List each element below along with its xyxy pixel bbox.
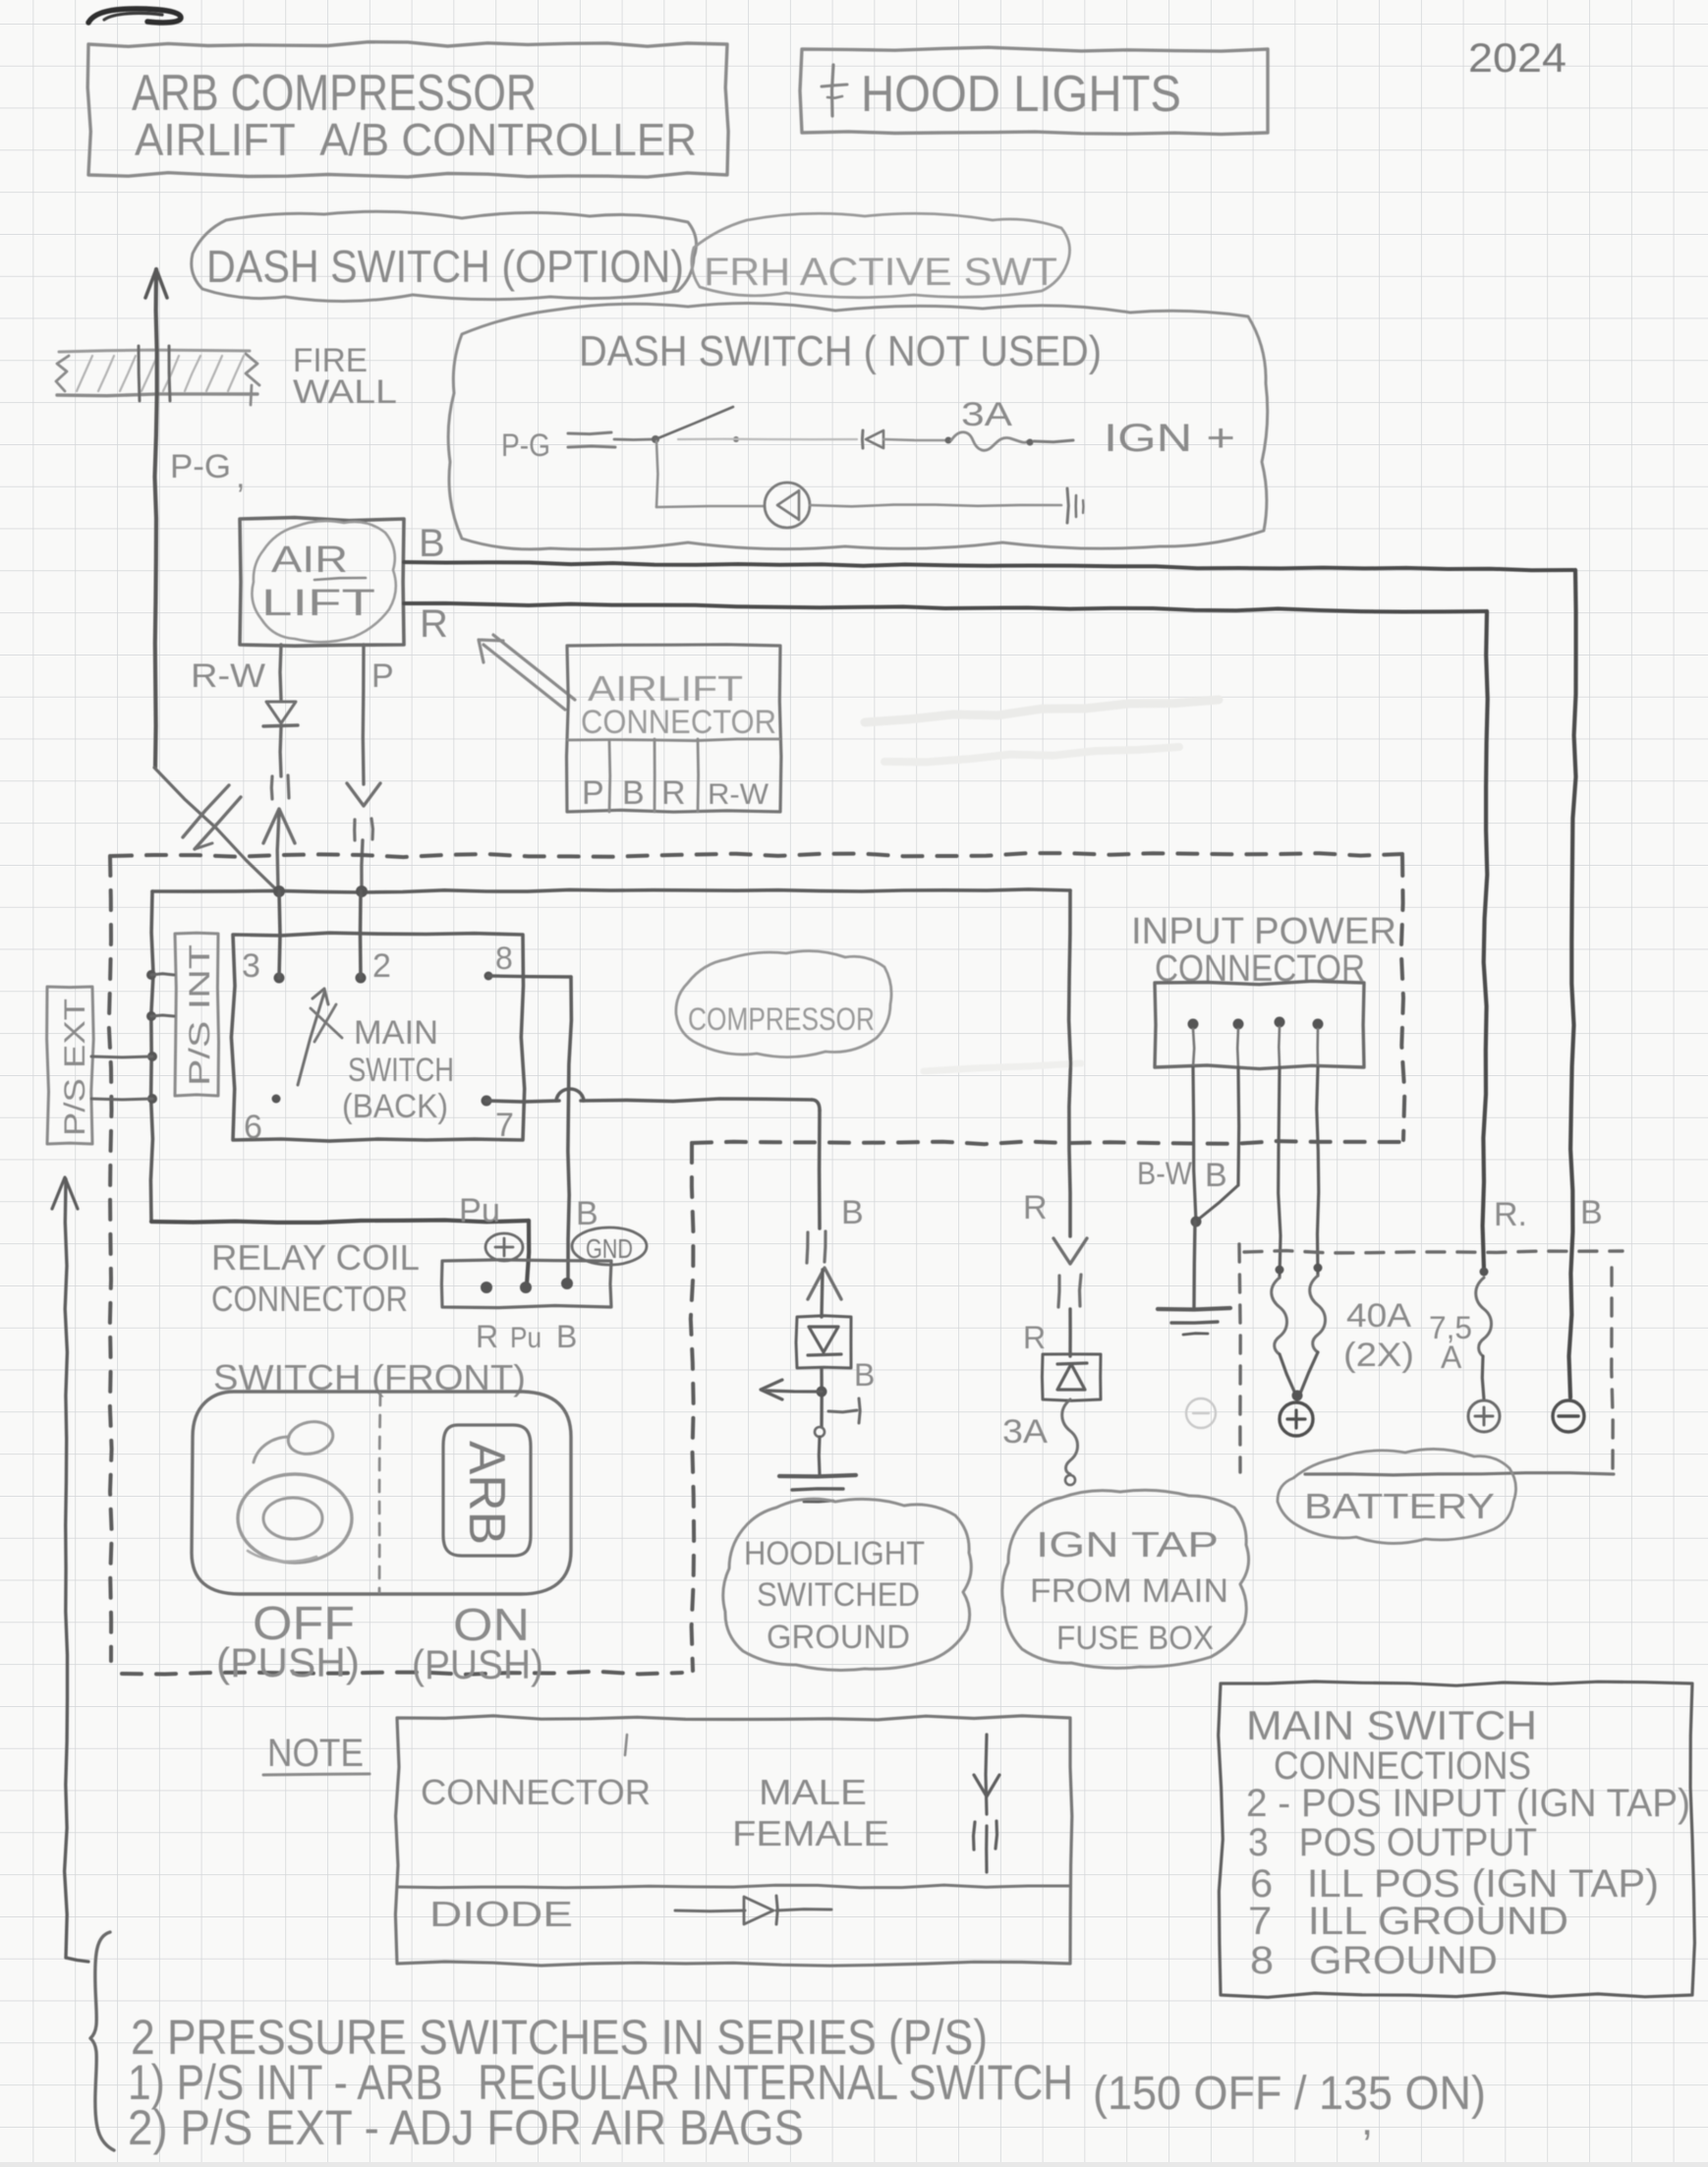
rail taps to P/S INT: [146, 970, 156, 980]
svg-text:AIRLIFT: AIRLIFT: [588, 668, 743, 709]
connector arrow B branch (up): [808, 1268, 841, 1299]
connector ticks P: [353, 820, 356, 840]
diode D1 (down): [266, 702, 296, 723]
title box ARB COMPRESSOR / AIRLIFT A/B CONTROLLER: [87, 42, 728, 177]
relay coil wire Pu horizontal: [151, 1221, 529, 1223]
arrow pointing to air lift (double): [484, 645, 565, 710]
svg-text:MAIN: MAIN: [354, 1014, 438, 1052]
firewall right break: [246, 354, 259, 405]
svg-text:P-G: P-G: [170, 448, 231, 485]
svg-text:2024: 2024: [1468, 34, 1566, 81]
component switch front rounded box: [192, 1392, 571, 1594]
lamp branch wire: [656, 441, 657, 507]
relay terminal + circle: [485, 1233, 523, 1261]
relay coil wire Pu drop: [527, 1221, 529, 1284]
svg-text:P: P: [371, 657, 394, 695]
fuse 40A #1 squiggle: [1272, 1278, 1287, 1354]
wire lamp to ground: [810, 505, 1061, 507]
firewall hatched band: [59, 350, 250, 352]
svg-text:2 - POS INPUT (IGN TAP): 2 - POS INPUT (IGN TAP): [1246, 1782, 1690, 1825]
label cloud DASH SWITCH (OPTION): [192, 211, 697, 301]
svg-text:IGN TAP: IGN TAP: [1036, 1524, 1219, 1565]
faint minus circle: [1186, 1398, 1216, 1428]
svg-text:P/S EXT: P/S EXT: [59, 998, 91, 1136]
svg-text:(150 OFF / 135 ON): (150 OFF / 135 ON): [1093, 2068, 1486, 2120]
connector arrow R-W (up): [263, 809, 295, 843]
input power pin 3 dot: [1275, 1017, 1285, 1028]
svg-text:40A: 40A: [1346, 1297, 1411, 1335]
svg-text:FRH ACTIVE SWT: FRH ACTIVE SWT: [704, 251, 1057, 294]
svg-text:R-W: R-W: [708, 778, 769, 811]
svg-text:DASH SWITCH ( NOT USED): DASH SWITCH ( NOT USED): [579, 327, 1102, 375]
svg-text:(BACK): (BACK): [342, 1088, 448, 1125]
connector ticks R-W: [270, 776, 274, 799]
wire dotted to diode: [678, 438, 857, 441]
svg-text:B: B: [1205, 1157, 1227, 1194]
lamp LP1 circle-K: [765, 483, 810, 528]
svg-text:,: ,: [236, 458, 245, 495]
fuse 40A #2 squiggle: [1310, 1276, 1326, 1352]
crossover hash marks on P-G diagonal: [183, 785, 229, 837]
pin 8 dot: [484, 972, 493, 981]
svg-text:3A: 3A: [1002, 1413, 1048, 1451]
component AIR LIFT box: [240, 518, 404, 647]
svg-text:B: B: [419, 522, 445, 565]
svg-text:P-G: P-G: [501, 428, 550, 463]
wire P-G diagonal to node A: [154, 768, 277, 890]
wire B vertical right: [1569, 570, 1576, 1397]
svg-text:FUSE BOX: FUSE BOX: [1056, 1620, 1214, 1657]
pin 2 dot: [356, 973, 367, 984]
crossing dots on battery top: [1276, 1266, 1284, 1275]
diode D2 in box (down): [796, 1316, 851, 1368]
table AIRLIFT CONNECTOR: [567, 645, 781, 812]
label cloud BATTERY: [1278, 1449, 1516, 1543]
diode D3 in box (up): [1042, 1354, 1101, 1400]
relay coil connector box: [441, 1260, 611, 1308]
toggle doodle donut: [238, 1474, 352, 1563]
svg-text:FROM MAIN: FROM MAIN: [1030, 1572, 1228, 1610]
svg-text:CONNECTOR: CONNECTOR: [211, 1279, 408, 1319]
svg-text:B: B: [622, 774, 645, 812]
battery dashed box left: [1239, 1244, 1240, 1472]
wire pin2 to node B: [359, 891, 363, 978]
note box divider: [397, 1885, 1070, 1888]
svg-text:R: R: [1023, 1320, 1046, 1355]
wire B-W from pin1: [1193, 1067, 1196, 1222]
note box: [395, 1716, 1071, 1966]
wire R horizontal: [404, 603, 1486, 612]
paperclip mark top-left: [88, 9, 181, 23]
svg-text:NOTE: NOTE: [267, 1732, 364, 1775]
input power pin 1 dot: [1188, 1019, 1199, 1030]
pin 6 dot: [272, 1095, 281, 1104]
switch front divider dashed: [379, 1394, 380, 1592]
pressure switch P/S INT box: [175, 933, 219, 1096]
cloud DASH SWITCH (NOT USED): [448, 303, 1268, 549]
svg-text:A: A: [1441, 1340, 1462, 1375]
dashed enclosure bottom: [122, 1672, 682, 1675]
dashed enclosure mid vertical: [691, 1143, 694, 1671]
connector circle ign tap: [1065, 1475, 1075, 1485]
pin 3 dot: [274, 973, 285, 984]
label cloud COMPRESSOR: [676, 951, 891, 1057]
svg-text:R.: R.: [1494, 1196, 1527, 1233]
battery dashed box top: [1244, 1251, 1623, 1253]
svg-text:3A: 3A: [961, 396, 1012, 433]
svg-text:HOOD LIGHTS: HOOD LIGHTS: [861, 66, 1181, 123]
svg-text:(2X): (2X): [1343, 1337, 1414, 1374]
wire pin7 to hood-light B drop (with hop): [486, 1101, 559, 1102]
pressure switch P/S EXT box: [47, 987, 94, 1144]
toggle doodle small loop: [285, 1418, 336, 1458]
svg-text:ARB: ARB: [458, 1441, 515, 1545]
connector box input power: [1155, 981, 1364, 1068]
battery box bottom line: [1305, 1473, 1614, 1475]
ground hood light: [779, 1475, 856, 1476]
svg-text:MALE: MALE: [759, 1772, 867, 1812]
tick above note box: [625, 1735, 627, 1755]
svg-text:BATTERY: BATTERY: [1304, 1486, 1495, 1526]
svg-text:2: 2: [372, 947, 391, 985]
svg-text:7: 7: [495, 1107, 514, 1144]
svg-text:WALL: WALL: [293, 373, 397, 411]
svg-text:R: R: [1023, 1189, 1048, 1226]
chassis ground symbol: [1158, 1308, 1230, 1310]
connector symbol male arrow: [986, 1735, 987, 1814]
connector circle: [815, 1427, 825, 1437]
component MAIN SWITCH (BACK) box: [231, 933, 524, 1141]
switch actuator arrow: [298, 993, 324, 1085]
svg-text:RELAY COIL: RELAY COIL: [211, 1237, 420, 1278]
arrow to switch (left): [767, 1391, 822, 1392]
svg-text:FEMALE: FEMALE: [732, 1813, 889, 1853]
svg-text:B-W: B-W: [1137, 1156, 1193, 1191]
fuse 7.5A squiggle: [1476, 1278, 1492, 1356]
svg-text:7 ILL GROUND: 7 ILL GROUND: [1248, 1900, 1568, 1943]
svg-text:MAIN SWITCH: MAIN SWITCH: [1246, 1702, 1537, 1748]
wire diode to fuse: [883, 439, 945, 440]
switch SW1 blade: [652, 435, 659, 443]
connector ticks B branch: [807, 1232, 808, 1263]
svg-text:IGN +: IGN +: [1104, 417, 1235, 460]
wire R-W from air lift: [280, 645, 281, 700]
svg-text:DIODE: DIODE: [429, 1894, 573, 1934]
connector ticks R branch: [1058, 1276, 1059, 1307]
node B junction dot: [356, 885, 368, 897]
ghost erased text smudge 1: [865, 700, 1219, 722]
rail taps to P/S EXT: [147, 1052, 157, 1061]
wire P from air lift: [362, 645, 366, 784]
relay pin Pu dot: [520, 1282, 532, 1293]
svg-text:(PUSH): (PUSH): [216, 1639, 360, 1685]
svg-text:B: B: [1580, 1194, 1603, 1231]
wire to switch SW1: [614, 438, 653, 441]
svg-text:P/S INT: P/S INT: [184, 944, 216, 1086]
svg-text:2) P/S EXT - ADJ FOR AIR BAGS: 2) P/S EXT - ADJ FOR AIR BAGS: [128, 2100, 804, 2155]
fuse F-dash 3A squiggle: [951, 432, 1028, 451]
svg-text:B: B: [854, 1357, 875, 1393]
wire R drop from main bus: [1069, 890, 1071, 1236]
fuse 3A squiggle: [1062, 1399, 1078, 1474]
wires converge to battery +: [1280, 1354, 1295, 1394]
diode D-dash (points left): [861, 430, 865, 448]
battery terminal + (second): [1468, 1400, 1500, 1432]
relay pin R dot: [481, 1282, 492, 1293]
svg-text:R: R: [420, 602, 448, 646]
ground for lamp: [1067, 488, 1068, 523]
node B-W junction: [1191, 1217, 1202, 1227]
dashed enclosure left: [109, 856, 112, 1661]
svg-text:Pu: Pu: [510, 1322, 541, 1354]
svg-text:,: ,: [1361, 2096, 1373, 2144]
ARB button rounded rect: [443, 1425, 531, 1556]
svg-text:SWITCHED: SWITCHED: [757, 1576, 920, 1614]
svg-text:B: B: [556, 1319, 577, 1354]
wire left rail: [150, 891, 153, 1222]
legend box MAIN SWITCH CONNECTIONS: [1219, 1682, 1695, 1997]
svg-text:(PUSH): (PUSH): [412, 1641, 543, 1687]
title box HOOD LIGHTS: [800, 47, 1268, 134]
svg-text:R: R: [661, 774, 686, 812]
svg-text:GROUND: GROUND: [767, 1619, 910, 1656]
svg-text:AIRLIFT A/B CONTROLLER: AIRLIFT A/B CONTROLLER: [135, 114, 697, 165]
firewall gap ticks: [139, 346, 140, 401]
pin 7 dot: [482, 1096, 492, 1107]
svg-text:Pu: Pu: [459, 1192, 500, 1229]
svg-text:8: 8: [495, 941, 513, 976]
P/S EXT external wire arrow up: [52, 1177, 78, 1209]
wire 40A feeds: [1279, 1067, 1281, 1278]
dashed enclosure mid horizontal: [692, 1141, 1402, 1144]
diode symbol in note: [675, 1910, 745, 1913]
connector arrow R branch (down): [1053, 1238, 1087, 1264]
battery dashed box right: [1612, 1268, 1613, 1472]
battery terminal -: [1553, 1400, 1584, 1432]
svg-text:B: B: [841, 1194, 864, 1231]
svg-text:CONNECTOR: CONNECTOR: [581, 704, 776, 741]
ghost erased text smudge 2: [924, 1063, 1081, 1071]
wire pin8 to GND drop: [488, 976, 571, 977]
connector arrow P (down): [347, 783, 380, 806]
connector symbol female ticks: [974, 1822, 976, 1850]
relay pin B dot: [561, 1278, 573, 1289]
svg-text:INPUT POWER: INPUT POWER: [1131, 911, 1396, 952]
svg-text:LIFT: LIFT: [261, 583, 375, 624]
svg-text:R: R: [476, 1319, 498, 1354]
wire B from pin2 (joins B-W): [1236, 1067, 1240, 1185]
relay terminal GND oval: [572, 1227, 647, 1265]
svg-text:R-W: R-W: [191, 657, 265, 695]
svg-text:3: 3: [242, 947, 260, 985]
svg-text:CONNECTOR: CONNECTOR: [421, 1772, 651, 1812]
label cloud HOOD LIGHT SWITCHED GROUND: [723, 1499, 972, 1670]
svg-text:8 GROUND: 8 GROUND: [1250, 1939, 1498, 1982]
firewall left break: [56, 356, 69, 391]
dashed enclosure top: [112, 853, 1402, 857]
svg-text:COMPRESSOR: COMPRESSOR: [688, 1001, 875, 1037]
brace for pressure switch notes: [90, 1932, 114, 2150]
wire B horizontal top: [404, 562, 1573, 570]
input power pin 4 dot: [1313, 1019, 1324, 1030]
svg-text:AIR: AIR: [271, 540, 348, 581]
svg-text:B: B: [576, 1195, 598, 1232]
wire to chassis ground: [1194, 1222, 1195, 1307]
svg-text:HOODLIGHT: HOODLIGHT: [744, 1535, 925, 1572]
node A junction dot: [273, 885, 285, 897]
input power pin 2 dot: [1233, 1019, 1244, 1030]
wire fuse to IGN+: [1034, 440, 1073, 442]
dashed enclosure right upper: [1401, 856, 1405, 1140]
strike symbol before HOOD LIGHTS: [832, 65, 834, 116]
svg-text:3 POS OUTPUT: 3 POS OUTPUT: [1248, 1821, 1537, 1864]
wire pin3 to node A: [279, 891, 280, 978]
cloud around AIR LIFT text: [252, 521, 395, 642]
wire main bus horizontal: [152, 889, 1070, 892]
node hood-light junction: [820, 1368, 824, 1427]
label cloud FROM ACTIVE SWT: [692, 213, 1070, 297]
svg-text:SWITCH: SWITCH: [348, 1052, 454, 1089]
battery terminal + (main): [1280, 1402, 1313, 1436]
svg-text:6: 6: [244, 1109, 262, 1146]
svg-text:DASH SWITCH (OPTION): DASH SWITCH (OPTION): [206, 241, 684, 292]
wire P-G vertical with up arrow: [145, 269, 167, 298]
contact mark: [828, 1410, 857, 1412]
svg-text:P: P: [582, 774, 604, 812]
wire R vertical right: [1483, 611, 1488, 1270]
label cloud IGN TAP FROM MAIN FUSE BOX: [1002, 1490, 1249, 1668]
